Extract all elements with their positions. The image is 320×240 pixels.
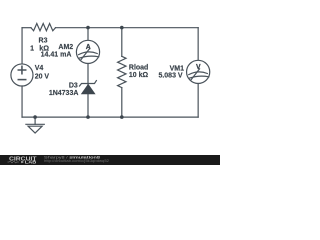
ground [26,123,44,125]
wire left vertical lower [21,86,23,117]
svg-text:AM2: AM2 [58,44,73,51]
svg-text:D3: D3 [69,82,78,89]
resistor Rload [118,56,126,87]
wire diode branch [87,64,89,118]
wire Rload branch bottom [121,88,123,118]
wire right vertical upper [197,28,199,61]
svg-text:1N4733A: 1N4733A [49,90,79,97]
wire left vertical upper [21,28,23,64]
wire Rload branch top [121,28,123,57]
svg-text:VM1: VM1 [170,66,185,73]
node ground junction [33,115,37,119]
logo zigzag [8,161,19,163]
diode D3 triangle [81,84,96,94]
logo LAB [21,161,24,164]
svg-text:V4: V4 [35,65,44,72]
svg-text:20 V: 20 V [35,74,50,81]
wire bottom rail [22,116,198,118]
svg-text:A: A [86,44,91,51]
svg-text:LAB: LAB [25,160,37,165]
svg-text:V: V [196,64,201,71]
wire top rail left segment [22,27,31,29]
voltmeter VM1 [187,60,210,83]
svg-text:R3: R3 [39,38,48,45]
wire right vertical lower [197,84,199,118]
node bottom Rload junction [120,115,124,119]
voltage source V4 [11,64,33,86]
node top ammeter junction [86,26,90,30]
node top Rload junction [120,26,124,30]
ammeter AM2 [76,40,99,63]
resistor R3 [31,24,56,31]
node bottom ammeter junction [86,115,90,119]
svg-text:1: 1 [30,46,34,53]
svg-text:14.41 mA: 14.41 mA [41,51,72,58]
wire ground stub [34,117,36,124]
svg-text:http://circuitlab.com/c/j5k3qb: http://circuitlab.com/c/j5k3qbdwq52 [44,159,109,163]
svg-text:10 kΩ: 10 kΩ [129,72,149,79]
wire ammeter branch top [87,28,89,41]
watermark bar [0,155,220,165]
svg-text:5.083 V: 5.083 V [158,73,182,80]
svg-text:Rload: Rload [129,65,148,72]
diode D3 zener bar [80,81,97,86]
wire top rail right segment [56,27,199,29]
